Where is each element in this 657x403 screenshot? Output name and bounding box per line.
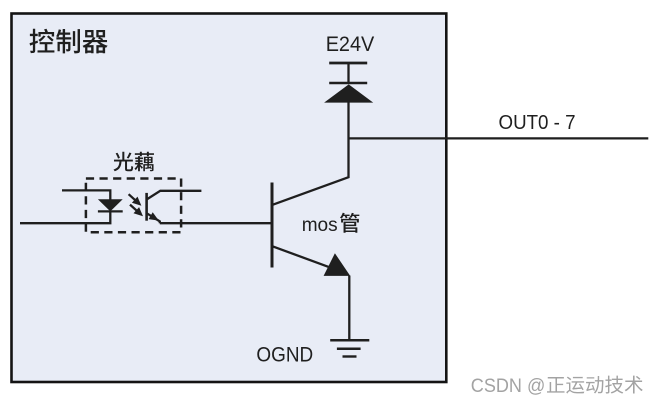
transistor Q2 collector/drain diagonal (273, 139, 349, 205)
transistor Q2 (mos) bar (271, 183, 274, 268)
label 光藕 (optocoupler) (114, 152, 154, 172)
phototransistor Q1 collector (147, 191, 202, 200)
wire: OUT0-7 output line (349, 137, 649, 139)
LED D1 (opto emitter diode) (98, 199, 123, 211)
svg-text:CSDN @: CSDN @ (471, 376, 546, 397)
optocoupler U1 dashed box (86, 179, 181, 233)
wire: LED anode input stub (62, 190, 110, 200)
label 控制器 (controller) (30, 29, 108, 54)
wire: rail to diode cathode (347, 63, 349, 83)
svg-text:mos: mos (302, 214, 338, 236)
wire: diode anode down to OUT node (347, 102, 349, 139)
light arrow 2 (130, 205, 143, 217)
svg-text:OGND: OGND (256, 343, 313, 366)
svg-text:OUT0 - 7: OUT0 - 7 (499, 111, 576, 134)
controller box 控制器 outline (12, 14, 447, 383)
wire: source to ground (348, 276, 350, 341)
LED D1 cathode bar (98, 210, 123, 212)
E24V supply rail bar (329, 62, 367, 65)
phototransistor Q1 emitter (147, 212, 160, 223)
diode D2 cathode bar (329, 82, 367, 85)
wire: opto emitter to mos gate (160, 222, 271, 224)
light arrow 1 (129, 194, 142, 206)
diode D2 triangle (324, 84, 373, 102)
ground symbol (330, 340, 369, 356)
phototransistor Q1 base bar (145, 193, 148, 221)
transistor Q2 emitter/source diagonal (273, 246, 332, 267)
watermark CSDN @正运动技术 (471, 376, 643, 397)
svg-text:E24V: E24V (326, 32, 375, 56)
transistor Q2 emitter arrow (324, 253, 351, 276)
wire: LED cathode return to left (20, 211, 110, 223)
